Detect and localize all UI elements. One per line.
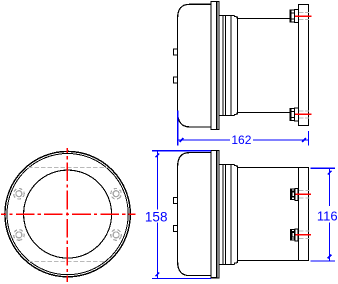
dim 158 bottom tick	[156, 272, 160, 276]
bottom view niche cylinder	[238, 167, 309, 260]
top view niche wall plate	[299, 4, 309, 125]
top view flange	[211, 2, 217, 130]
front view screw symbol bottom-right	[110, 228, 123, 241]
bottom view flange	[211, 150, 217, 277]
bottom view screw upper red centerline	[296, 193, 312, 195]
dim 162 line left segment	[178, 139, 230, 141]
bottom view screw lower hidden hole (dashed)	[299, 231, 310, 239]
dim 158 bottom extension line	[152, 277, 211, 279]
bottom view lamp body outline	[178, 153, 212, 276]
front view inner rim circle	[7, 154, 128, 275]
bottom view niche inner rim line	[298, 167, 300, 260]
top view mounting tab upper	[173, 49, 177, 55]
front view hidden niche edge bottom (dashed)	[28, 261, 107, 263]
top view bolt lower	[290, 108, 298, 121]
bottom view mounting tab lower	[173, 226, 177, 232]
svg-text:162: 162	[231, 133, 251, 147]
front view screw symbol top-right	[109, 186, 124, 201]
bottom view screw upper hidden hole (dashed)	[299, 191, 310, 199]
dim 162 left extension line	[177, 111, 179, 146]
dim 158 line top segment	[156, 152, 158, 210]
svg-text:158: 158	[145, 209, 168, 224]
bottom view mounting tab upper	[173, 198, 177, 204]
top view clamping rings	[219, 15, 237, 115]
top view gasket plate	[217, 2, 219, 130]
front view hidden niche edge top (dashed)	[28, 166, 107, 168]
dim 158 top tick	[156, 153, 160, 157]
top view bolt upper red centerline	[295, 15, 311, 17]
top view niche tube bottom edge	[238, 112, 291, 114]
dim 116 line bottom segment	[329, 223, 331, 261]
dim 162 line right segment	[253, 139, 308, 141]
front view horizontal red centerline	[1, 213, 135, 215]
top view mounting tab lower	[173, 77, 177, 83]
top view bolt upper hidden hole (dashed)	[299, 12, 309, 19]
bottom view screw upper	[290, 188, 298, 200]
dim 116 top extension line	[311, 167, 335, 169]
bottom view gasket plate	[217, 150, 219, 277]
bottom view clamping rings	[219, 164, 237, 264]
top view bolt lower hidden hole (dashed)	[299, 111, 309, 118]
dim 162 right extension line	[307, 131, 309, 146]
dim 162 right tick	[302, 138, 306, 142]
dim 116 top tick	[328, 171, 332, 175]
bottom view screw lower	[290, 229, 298, 241]
dim 162 left tick	[180, 138, 184, 142]
bottom view screw lower red centerline	[296, 234, 312, 236]
dim 116 bottom extension line	[311, 260, 336, 262]
front view lens circle	[24, 170, 112, 258]
dim 158 line bottom segment	[156, 223, 158, 279]
svg-text:116: 116	[317, 209, 338, 224]
front view screw symbol top-left	[14, 188, 25, 199]
front view vertical red centerline	[66, 148, 68, 282]
dim 158 top extension line	[152, 150, 211, 152]
top view bolt upper	[290, 9, 298, 22]
dim 116 bottom tick	[328, 255, 332, 259]
top view niche tube top edge	[238, 18, 291, 20]
front view screw symbol bottom-left	[12, 228, 25, 241]
top view bolt lower red centerline	[295, 113, 311, 115]
dim 116 line top segment	[329, 169, 331, 206]
top view lamp body outline	[178, 4, 212, 127]
front view outer rim circle	[5, 151, 130, 276]
